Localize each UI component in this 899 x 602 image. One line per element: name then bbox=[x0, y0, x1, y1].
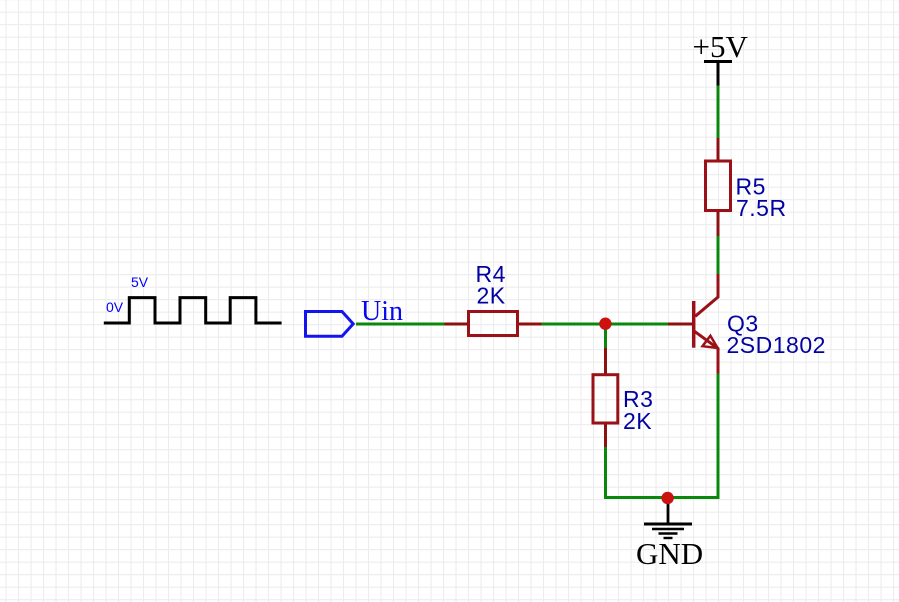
svg-text:5V: 5V bbox=[131, 274, 149, 290]
svg-text:+5V: +5V bbox=[693, 29, 749, 64]
svg-text:7.5R: 7.5R bbox=[736, 195, 787, 221]
svg-text:2K: 2K bbox=[477, 283, 506, 309]
svg-text:2SD1802: 2SD1802 bbox=[727, 332, 826, 358]
svg-text:2K: 2K bbox=[623, 408, 652, 434]
svg-text:Uin: Uin bbox=[361, 296, 403, 327]
svg-text:GND: GND bbox=[636, 536, 703, 571]
svg-text:0V: 0V bbox=[106, 299, 124, 315]
